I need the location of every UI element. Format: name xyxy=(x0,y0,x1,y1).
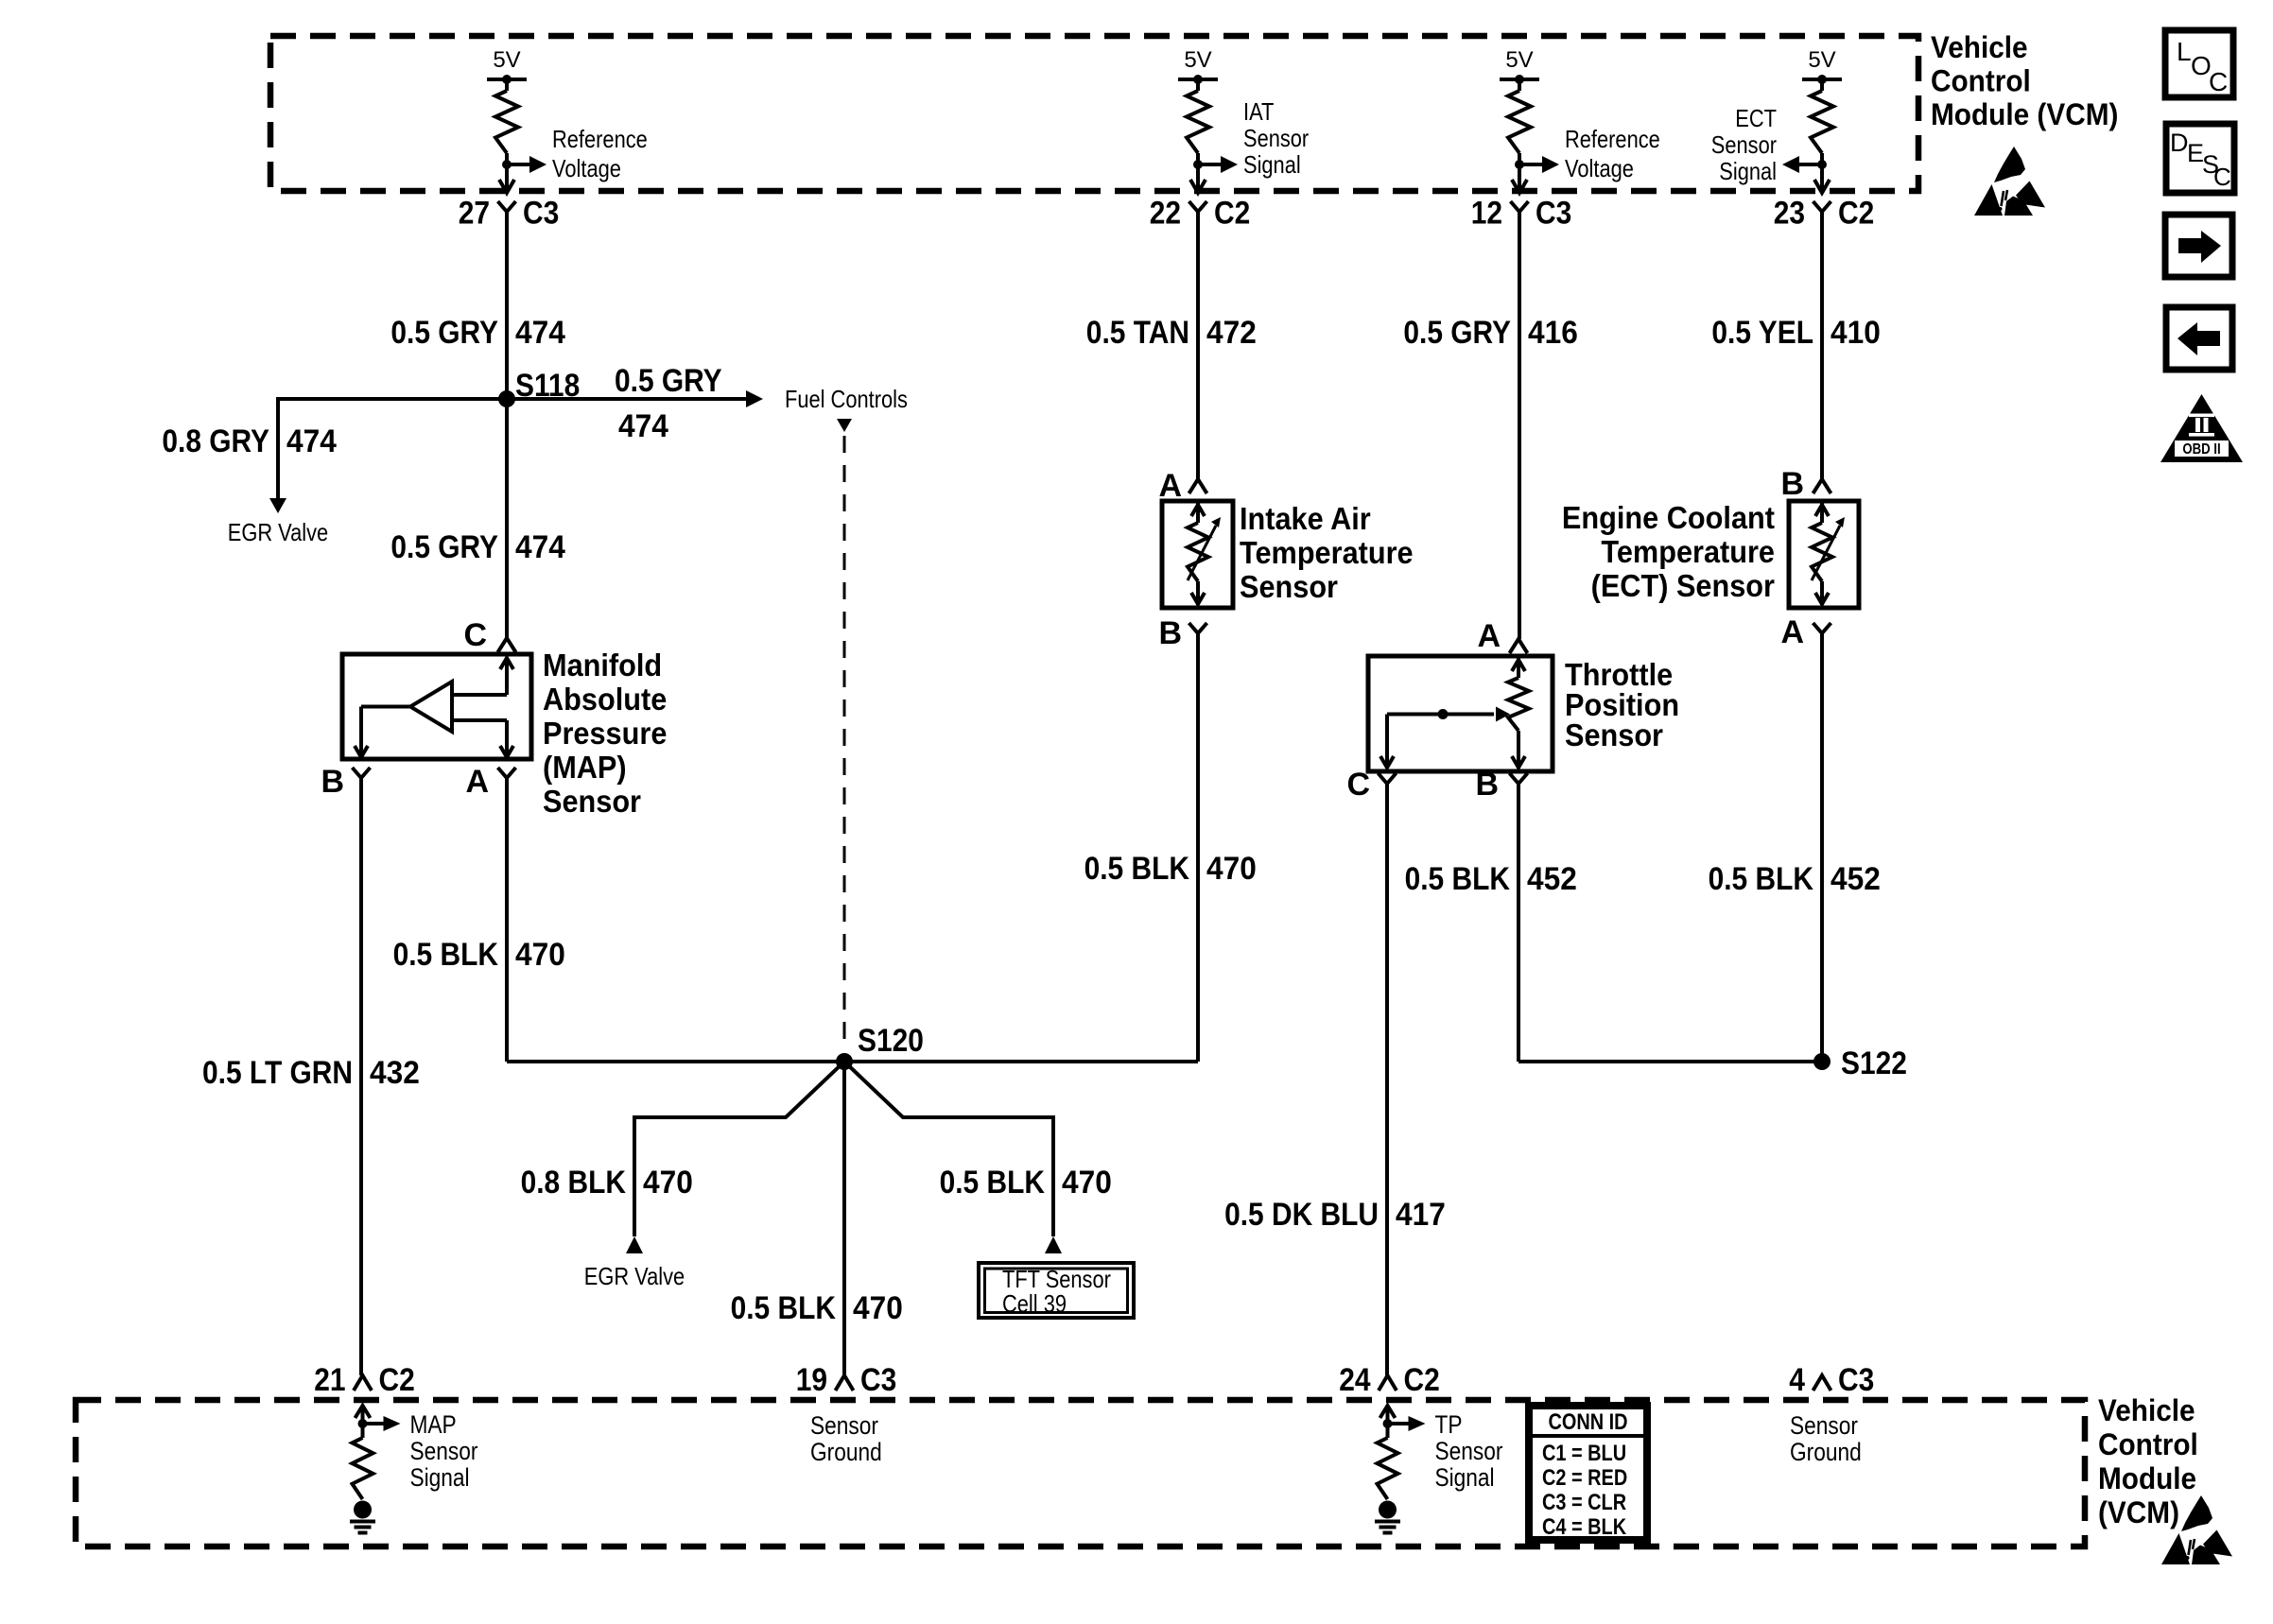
TP potentiometer element xyxy=(1380,656,1529,769)
svg-text:Sensor: Sensor xyxy=(1243,124,1309,152)
svg-text:Sensor: Sensor xyxy=(810,1411,878,1440)
Sensor Ground label (4) xyxy=(1790,1411,1862,1466)
svg-text:0.5 TAN: 0.5 TAN xyxy=(1086,315,1189,351)
svg-text:0.5 BLK: 0.5 BLK xyxy=(1405,861,1511,897)
svg-text:Sensor: Sensor xyxy=(1711,130,1777,159)
VCM bottom label xyxy=(2098,1393,2198,1529)
label 0.5 GRY 474 (lower) xyxy=(390,529,564,565)
5V supply node (27 C3 circuit) xyxy=(487,47,527,84)
svg-text:21: 21 xyxy=(314,1362,345,1398)
svg-text:Vehicle: Vehicle xyxy=(2098,1393,2195,1427)
label 0.5 BLK 470 (IAT ground) xyxy=(1084,851,1257,887)
svg-text:Temperature: Temperature xyxy=(1240,535,1414,570)
label 0.5 BLK 470 (sensor ground) xyxy=(731,1290,903,1326)
pin A (TP sensor) xyxy=(1477,618,1527,654)
ECT sensor name label xyxy=(1562,500,1775,603)
svg-text:L: L xyxy=(2177,37,2192,66)
pin 22 C2 connector xyxy=(1150,196,1251,232)
svg-text:23: 23 xyxy=(1774,196,1805,232)
IAT sensor box (thermistor) xyxy=(1162,501,1233,608)
TP sensor signal label xyxy=(1435,1410,1503,1492)
svg-text:4: 4 xyxy=(1789,1362,1805,1398)
svg-text:0.5 BLK: 0.5 BLK xyxy=(1084,851,1190,887)
svg-text:Sensor: Sensor xyxy=(410,1437,478,1465)
svg-text:Module: Module xyxy=(2098,1461,2196,1495)
pin A (IAT sensor) xyxy=(1158,468,1206,504)
IAT thermistor element xyxy=(1188,501,1221,605)
svg-text:0.5 GRY: 0.5 GRY xyxy=(615,363,722,399)
svg-text:C4 = BLK: C4 = BLK xyxy=(1542,1514,1627,1540)
svg-text:Voltage: Voltage xyxy=(1565,154,1634,182)
splice node S122 xyxy=(1813,1045,1907,1081)
pin 21 C2 connector xyxy=(314,1362,415,1398)
svg-text:OBD II: OBD II xyxy=(2182,441,2220,458)
svg-text:474: 474 xyxy=(515,315,565,351)
svg-text:417: 417 xyxy=(1396,1197,1446,1233)
svg-text:Ground: Ground xyxy=(1790,1438,1862,1466)
VCM pull-up resistor (C2-23) xyxy=(1811,79,1833,164)
ground bus wire: TP B to ECT xyxy=(1518,1060,1822,1063)
VCM input impedance resistor (TP) xyxy=(1378,1424,1398,1499)
svg-text:470: 470 xyxy=(643,1165,693,1201)
svg-text:0.5 YEL: 0.5 YEL xyxy=(1711,315,1813,351)
pin 12 C3 connector xyxy=(1471,196,1572,232)
wire: VCM to pin 22 xyxy=(1190,164,1206,193)
pin B (MAP sensor) xyxy=(321,764,370,800)
svg-text:452: 452 xyxy=(1527,861,1577,897)
MAP sensor name label xyxy=(543,648,667,819)
internal signal tap node xyxy=(502,160,512,169)
svg-text:Signal: Signal xyxy=(1719,157,1777,185)
svg-text:CONN ID: CONN ID xyxy=(1548,1409,1627,1435)
svg-text:5V: 5V xyxy=(1184,47,1211,73)
internal signal tap node xyxy=(1515,160,1524,169)
wire 432: MAP pin B to pin 21 xyxy=(359,778,363,1375)
label 0.8 GRY 474 xyxy=(162,423,336,459)
5V supply node (12 C3 circuit) xyxy=(1500,47,1539,84)
pin 23 C2 connector xyxy=(1774,196,1875,232)
internal signal tap node xyxy=(1817,160,1827,169)
svg-text:TP: TP xyxy=(1435,1410,1463,1439)
back arrow icon xyxy=(2166,307,2232,370)
svg-text:Control: Control xyxy=(2098,1427,2198,1461)
signal name label xyxy=(1243,97,1309,179)
svg-text:IAT: IAT xyxy=(1243,97,1274,126)
TFT sensor continuation arrow xyxy=(1045,1236,1062,1253)
svg-text:A: A xyxy=(1477,618,1501,654)
svg-text:474: 474 xyxy=(515,529,565,565)
svg-text:0.5 BLK: 0.5 BLK xyxy=(940,1165,1046,1201)
svg-text:Module (VCM): Module (VCM) xyxy=(1931,97,2118,131)
pin B (IAT sensor) xyxy=(1158,615,1206,651)
wire 470: S120 to EGR Valve ground xyxy=(634,1062,844,1236)
svg-text:Signal: Signal xyxy=(1243,150,1301,179)
svg-text:470: 470 xyxy=(1062,1165,1112,1201)
wire 417: TP pin C to pin 24 xyxy=(1385,784,1389,1375)
svg-text:S120: S120 xyxy=(858,1023,924,1059)
pin C (MAP sensor) xyxy=(463,617,515,653)
VCM input impedance resistor (MAP) xyxy=(353,1424,373,1499)
svg-text:S122: S122 xyxy=(1841,1045,1907,1081)
svg-text:474: 474 xyxy=(618,408,668,444)
wire 470: IAT pin B to ground bus xyxy=(1196,633,1200,1062)
label 0.5 GRY 416 xyxy=(1403,315,1577,351)
signal name label xyxy=(1711,104,1777,185)
svg-text:0.5 GRY: 0.5 GRY xyxy=(390,315,498,351)
svg-text:470: 470 xyxy=(515,937,565,973)
svg-text:12: 12 xyxy=(1471,196,1502,232)
VCM internal ground (MAP) xyxy=(350,1501,375,1533)
svg-text:Manifold: Manifold xyxy=(543,648,662,682)
svg-text:EGR Valve: EGR Valve xyxy=(584,1262,685,1290)
wire 474: S118 to MAP sensor pin C xyxy=(505,399,509,638)
svg-text:0.5 GRY: 0.5 GRY xyxy=(390,529,498,565)
svg-text:Fuel Controls: Fuel Controls xyxy=(785,385,908,413)
svg-text:Sensor: Sensor xyxy=(1240,569,1338,604)
VCM top label xyxy=(1931,30,2118,131)
signal name label xyxy=(1565,125,1660,182)
svg-text:5V: 5V xyxy=(1808,47,1835,73)
svg-text:A: A xyxy=(465,764,489,800)
VCM internal ground (TP) xyxy=(1375,1501,1400,1533)
wire 474: S118 to Fuel Controls xyxy=(507,390,763,407)
pin B (ECT sensor) xyxy=(1780,466,1831,502)
svg-text:19: 19 xyxy=(796,1362,827,1398)
wire 452: TP pin B to ground bus xyxy=(1517,784,1520,1062)
svg-text:C2 = RED: C2 = RED xyxy=(1542,1465,1627,1491)
svg-text:C: C xyxy=(2209,67,2228,96)
forward arrow icon xyxy=(2165,215,2232,277)
svg-text:Intake Air: Intake Air xyxy=(1240,501,1371,536)
label 0.5 GRY 474 (fuel controls branch) xyxy=(615,363,722,444)
svg-text:410: 410 xyxy=(1831,315,1881,351)
svg-text:C3: C3 xyxy=(860,1362,896,1398)
VCM bottom dashed enclosure box xyxy=(76,1400,2085,1546)
svg-text:5V: 5V xyxy=(493,47,520,73)
svg-text:Reference: Reference xyxy=(552,125,648,153)
svg-text:(VCM): (VCM) xyxy=(2098,1495,2179,1529)
svg-text:0.5 DK BLU: 0.5 DK BLU xyxy=(1224,1197,1379,1233)
svg-text:(ECT) Sensor: (ECT) Sensor xyxy=(1591,568,1776,603)
svg-text:0.5 BLK: 0.5 BLK xyxy=(1709,861,1814,897)
label 0.5 GRY 474 (upper) xyxy=(390,315,564,351)
pin B (TP sensor) xyxy=(1475,767,1527,803)
pin A (MAP sensor) xyxy=(465,764,515,800)
VCM top dashed enclosure box xyxy=(270,36,1918,191)
wire 474: S118 to EGR Valve branch xyxy=(278,399,507,498)
MAP sensor box xyxy=(342,654,531,759)
wire 470: S120 to pin 19 xyxy=(842,1062,846,1375)
svg-text:Signal: Signal xyxy=(1435,1463,1495,1492)
svg-text:0.8 BLK: 0.8 BLK xyxy=(521,1165,627,1201)
label 0.5 TAN 472 xyxy=(1086,315,1257,351)
svg-text:Voltage: Voltage xyxy=(552,154,621,182)
TFT Sensor Cell 39 reference box xyxy=(979,1263,1134,1318)
svg-text:432: 432 xyxy=(370,1055,420,1091)
label 0.5 LT GRN 432 xyxy=(202,1055,420,1091)
svg-text:D: D xyxy=(2170,129,2189,157)
wire: VCM to pin 12 xyxy=(1512,164,1527,193)
svg-text:Vehicle: Vehicle xyxy=(1931,30,2028,64)
svg-text:C: C xyxy=(2213,163,2231,191)
5V supply node (23 C2 circuit) xyxy=(1802,47,1842,84)
splice node S118 xyxy=(498,368,580,407)
svg-text:0.5 BLK: 0.5 BLK xyxy=(731,1290,837,1326)
wire 410: pin 23 to ECT sensor xyxy=(1820,212,1824,479)
svg-text:C1 = BLU: C1 = BLU xyxy=(1542,1441,1626,1466)
svg-text:0.8 GRY: 0.8 GRY xyxy=(162,423,269,459)
TP sensor name label xyxy=(1565,657,1679,752)
svg-text:416: 416 xyxy=(1528,315,1578,351)
EGR Valve ground continuation arrow xyxy=(626,1236,643,1253)
Sensor Ground label (19) xyxy=(810,1411,882,1466)
pin 19 C3 connector xyxy=(796,1362,897,1398)
svg-text:0.5 LT GRN: 0.5 LT GRN xyxy=(202,1055,353,1091)
svg-text:Cell 39: Cell 39 xyxy=(1002,1289,1067,1318)
svg-text:B: B xyxy=(1158,615,1182,651)
internal signal tap node xyxy=(1193,160,1203,169)
svg-text:Pressure: Pressure xyxy=(543,716,667,751)
wire 470: S120 to TFT sensor ground xyxy=(844,1062,1053,1236)
5V supply node (22 C2 circuit) xyxy=(1178,47,1218,84)
svg-text:Sensor: Sensor xyxy=(1790,1411,1858,1440)
VCM pull-up resistor (C3-12) xyxy=(1508,79,1531,164)
svg-text:C3: C3 xyxy=(1838,1362,1874,1398)
wire 452: ECT pin A to S122 xyxy=(1820,633,1824,1062)
svg-text:470: 470 xyxy=(1206,851,1257,887)
CONN ID legend box xyxy=(1529,1406,1647,1540)
MAP sensor signal input circuit xyxy=(356,1406,401,1431)
svg-text:452: 452 xyxy=(1831,861,1881,897)
svg-text:B: B xyxy=(1475,767,1499,803)
svg-text:EGR Valve: EGR Valve xyxy=(228,518,328,546)
label 0.5 YEL 410 xyxy=(1711,315,1880,351)
ESD sensitivity symbol (bottom) xyxy=(2161,1495,2232,1564)
wire: VCM to pin 23 xyxy=(1814,164,1830,193)
label 0.5 DK BLU 417 xyxy=(1224,1197,1446,1233)
label 0.5 BLK 470 (TFT branch) xyxy=(940,1165,1112,1201)
svg-text:Absolute: Absolute xyxy=(543,682,667,717)
OBD II icon xyxy=(2160,394,2243,462)
svg-text:(MAP): (MAP) xyxy=(543,750,627,785)
EGR Valve continuation arrow (left branch) xyxy=(269,498,286,513)
signal tap arrow xyxy=(1782,156,1822,173)
label 0.5 BLK 452 (ECT ground) xyxy=(1709,861,1881,897)
ground bus wire: MAP A to IAT B xyxy=(507,1060,1198,1063)
svg-text:470: 470 xyxy=(853,1290,903,1326)
pin 27 C3 connector xyxy=(459,196,560,232)
svg-text:5V: 5V xyxy=(1505,47,1533,73)
pin A (ECT sensor) xyxy=(1780,614,1831,650)
ECT sensor box (thermistor) xyxy=(1789,501,1859,608)
VCM pull-up resistor (C3-27) xyxy=(495,79,518,164)
pin 4 C3 connector xyxy=(1789,1362,1874,1398)
svg-text:472: 472 xyxy=(1206,315,1257,351)
svg-text:A: A xyxy=(1780,614,1804,650)
signal tap arrow xyxy=(1519,156,1559,173)
Fuel Controls continuation arrow xyxy=(837,419,852,432)
signal name label xyxy=(552,125,648,182)
wire 474: pin 27 to S118 xyxy=(505,212,509,399)
svg-text:C2: C2 xyxy=(1838,196,1874,232)
svg-text:C3: C3 xyxy=(1536,196,1571,232)
MAP sensor internal transducer xyxy=(355,658,513,757)
dashed wire: Fuel Controls to S120 xyxy=(843,436,846,1051)
svg-text:0.5 GRY: 0.5 GRY xyxy=(1403,315,1511,351)
MAP sensor signal label xyxy=(410,1410,478,1492)
svg-text:Ground: Ground xyxy=(810,1438,882,1466)
signal tap arrow xyxy=(1198,156,1238,173)
svg-text:Engine Coolant: Engine Coolant xyxy=(1562,500,1775,535)
LOC icon xyxy=(2165,30,2233,97)
DESC icon xyxy=(2166,124,2234,193)
svg-text:474: 474 xyxy=(286,423,337,459)
svg-text:Sensor: Sensor xyxy=(1435,1437,1503,1465)
TP sensor signal input circuit xyxy=(1380,1406,1426,1431)
VCM pull-up resistor (C2-22) xyxy=(1187,79,1209,164)
pin C (TP sensor) xyxy=(1346,767,1396,803)
svg-text:22: 22 xyxy=(1150,196,1181,232)
svg-text:C3 = CLR: C3 = CLR xyxy=(1542,1490,1626,1515)
svg-text:A: A xyxy=(1158,468,1182,504)
svg-text:C3: C3 xyxy=(523,196,559,232)
wire: VCM to pin 27 xyxy=(499,164,514,193)
label 0.8 BLK 470 xyxy=(521,1165,693,1201)
svg-text:27: 27 xyxy=(459,196,490,232)
svg-text:B: B xyxy=(321,764,344,800)
svg-text:MAP: MAP xyxy=(410,1410,457,1439)
svg-text:Control: Control xyxy=(1931,64,2031,98)
wire 470: MAP pin A to ground bus xyxy=(505,778,509,1062)
label 0.5 BLK 452 (TP ground) xyxy=(1405,861,1577,897)
svg-text:Sensor: Sensor xyxy=(543,784,641,819)
svg-text:24: 24 xyxy=(1339,1362,1370,1398)
svg-text:Sensor: Sensor xyxy=(1565,717,1663,752)
pin 24 C2 connector xyxy=(1339,1362,1440,1398)
wire 472: pin 22 to IAT sensor xyxy=(1196,212,1200,479)
splice node S120 xyxy=(836,1023,924,1070)
svg-text:0.5 BLK: 0.5 BLK xyxy=(393,937,499,973)
svg-text:C2: C2 xyxy=(379,1362,415,1398)
TP sensor box (potentiometer) xyxy=(1368,656,1553,771)
svg-text:C2: C2 xyxy=(1404,1362,1440,1398)
svg-text:Reference: Reference xyxy=(1565,125,1660,153)
svg-text:C: C xyxy=(463,617,487,653)
svg-text:ECT: ECT xyxy=(1735,104,1777,132)
svg-text:Temperature: Temperature xyxy=(1601,534,1775,569)
svg-text:C: C xyxy=(1346,767,1370,803)
label 0.5 BLK 470 (MAP ground) xyxy=(393,937,565,973)
ESD sensitivity symbol (top) xyxy=(1974,147,2045,216)
signal tap arrow xyxy=(507,156,547,173)
IAT sensor name label xyxy=(1240,501,1414,604)
wire 416: pin 12 to TP sensor xyxy=(1518,212,1521,639)
svg-text:Signal: Signal xyxy=(410,1463,470,1492)
svg-text:B: B xyxy=(1780,466,1804,502)
svg-text:C2: C2 xyxy=(1214,196,1250,232)
ECT thermistor element xyxy=(1812,501,1845,605)
